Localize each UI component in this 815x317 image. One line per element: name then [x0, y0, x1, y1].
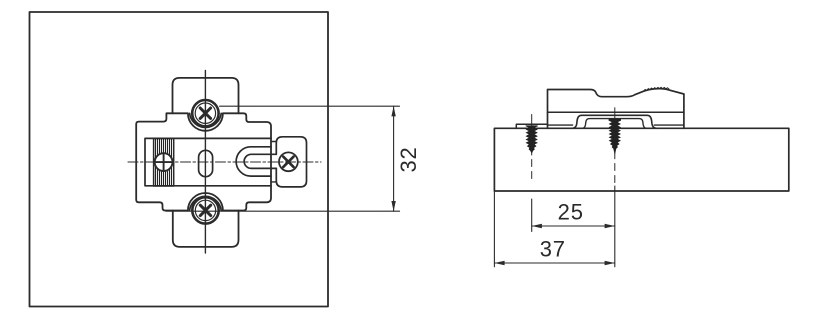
bottom screw recess shadow arc — [190, 196, 222, 210]
dimension line 25 — [532, 225, 615, 227]
plate body side outline — [548, 89, 684, 129]
serrations on cam crest — [644, 87, 670, 91]
extension line left screw (25) — [531, 199, 533, 232]
top euro screw — [192, 100, 218, 126]
bottom tab — [173, 211, 239, 247]
vertical centerline — [204, 71, 206, 254]
seam line between cast part and base — [548, 111, 684, 113]
bottom euro screw — [192, 197, 218, 223]
right screw (pozidriv X) — [279, 152, 298, 171]
right euro screw threads — [609, 119, 621, 155]
base flange top edges — [548, 124, 684, 126]
right wing tab — [276, 137, 306, 187]
extension line bottom (32) — [166, 210, 400, 212]
U cam slot outer — [236, 147, 271, 176]
left wood screw threads — [526, 125, 538, 153]
U cam slot inner — [244, 154, 276, 168]
svg-text:32: 32 — [396, 146, 421, 172]
right euro screw dashed centerline — [614, 164, 616, 183]
dimension line 32 — [393, 106, 395, 211]
panel board — [494, 128, 788, 191]
extension line right screw (25/37) — [614, 186, 616, 267]
dimension line 37 — [494, 262, 614, 264]
right euro screw centerline — [614, 108, 616, 159]
horizontal centerline — [128, 161, 321, 163]
top tab — [173, 78, 239, 113]
central oval slot — [199, 150, 213, 176]
left wood screw centerline — [531, 115, 533, 156]
svg-text:37: 37 — [540, 236, 566, 261]
top screw recess shadow arc — [190, 113, 222, 127]
hat channel inner — [582, 119, 646, 129]
left flange of plate — [516, 124, 547, 128]
panel square (front view cabinet side) — [30, 12, 329, 307]
svg-text:25: 25 — [558, 199, 584, 224]
left wood screw dashed centerline — [531, 160, 533, 179]
hatched spring area border — [154, 139, 174, 187]
adjustment screw (left, plus head) — [155, 153, 173, 171]
mounting plate outer contour — [136, 113, 271, 210]
extension line top (32) — [220, 105, 400, 107]
U slot end stubs — [271, 142, 276, 182]
hatch lines — [156, 139, 172, 186]
central bar edges — [145, 138, 271, 185]
hat channel outer — [573, 115, 657, 128]
panel left edge extension (37) — [493, 191, 495, 267]
